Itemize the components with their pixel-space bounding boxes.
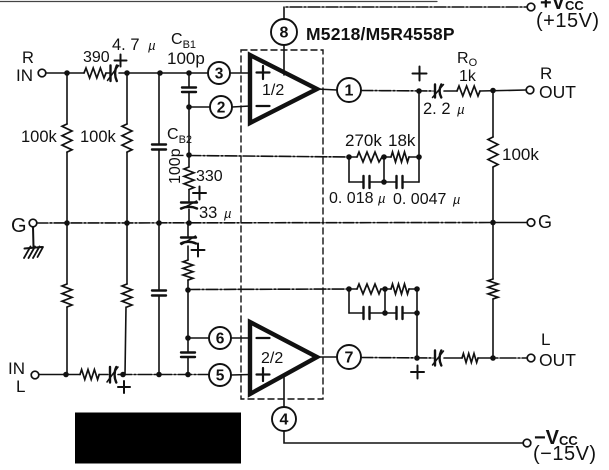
svg-text:0. 0047 µ: 0. 0047 µ xyxy=(393,191,460,208)
node fbR mid xyxy=(381,154,387,160)
svg-text:100p: 100p xyxy=(167,49,205,68)
label R IN xyxy=(16,49,34,85)
wire pin6 to op-amp xyxy=(231,337,250,339)
svg-text:18k: 18k xyxy=(388,131,416,150)
svg-text:100k: 100k xyxy=(80,128,117,146)
node G x159 xyxy=(156,220,162,226)
wire pin7 to output node xyxy=(361,357,433,360)
capacitor CB2 100p xyxy=(152,73,166,223)
terminal L OUT xyxy=(527,354,535,362)
resistor 100k output (R ch) xyxy=(488,91,498,223)
svg-text:M5218/M5R4558P: M5218/M5R4558P xyxy=(306,24,455,44)
svg-text:G: G xyxy=(538,212,552,232)
node G right junction xyxy=(490,220,496,226)
node L-out 100k junction xyxy=(490,355,496,361)
node R-IN / 100k junction xyxy=(64,70,70,76)
svg-text:OUT: OUT xyxy=(539,350,576,370)
resistor 100k input A xyxy=(62,73,72,223)
terminal R OUT xyxy=(526,86,534,94)
label CB2 xyxy=(167,126,192,146)
op-amp U2 2/2 xyxy=(250,322,317,394)
plus mark 2.2u (R ch) xyxy=(413,67,427,81)
wire G rail xyxy=(37,222,527,225)
svg-text:G: G xyxy=(11,215,27,237)
label 330 xyxy=(196,168,223,185)
node L-IN junction x66 xyxy=(63,372,69,378)
label 100p (CB1) xyxy=(167,49,205,68)
resistor 330 (L ch) xyxy=(183,246,193,290)
plus mark op-amp1 xyxy=(257,66,270,79)
resistor 330 (R ch) xyxy=(184,155,194,201)
svg-text:1k: 1k xyxy=(459,68,477,85)
pin 7 xyxy=(337,345,361,369)
node L junction x188 xyxy=(185,372,191,378)
label 2.2u xyxy=(423,100,465,118)
wire pin6 xyxy=(188,337,209,339)
capacitor 4.7u' (L ch electrolytic) xyxy=(107,367,118,383)
wire 390' to cap xyxy=(99,374,108,376)
label L OUT xyxy=(539,330,576,370)
node L junction x159 xyxy=(156,372,162,378)
node fbL cap right xyxy=(414,310,420,316)
pin 5 xyxy=(209,364,231,386)
label G left xyxy=(11,215,27,237)
label 1k xyxy=(459,68,477,85)
label 0.0047u xyxy=(393,191,460,208)
label G right xyxy=(538,212,552,232)
svg-text:OUT: OUT xyxy=(539,82,576,102)
wire pin5 to op-amp xyxy=(231,374,250,377)
wire C4.7 to pin3 xyxy=(119,72,208,74)
svg-text:33 µ: 33 µ xyxy=(199,204,231,222)
capacitor 4.7u (electrolytic) xyxy=(108,66,119,82)
wire pin2 to op-amp xyxy=(232,106,250,107)
wire fbL verticals xyxy=(349,289,417,358)
svg-text:2/2: 2/2 xyxy=(261,350,283,367)
wire pin8 to op-amp1 xyxy=(283,46,285,76)
plus mark op-amp2 xyxy=(257,368,270,381)
svg-text:100k: 100k xyxy=(21,128,58,146)
label 100k A xyxy=(21,128,58,146)
node pin2 junction xyxy=(186,104,192,110)
svg-text:330: 330 xyxy=(196,168,223,185)
capacitor CB1 100p xyxy=(182,73,196,155)
terminal G left xyxy=(29,219,37,227)
plus mark 33u (L ch) xyxy=(192,244,205,257)
terminal R IN xyxy=(38,69,46,77)
pin 1 xyxy=(337,78,361,102)
label -Vcc xyxy=(533,427,597,465)
label IN L xyxy=(8,359,25,396)
resistor 390' (L ch) xyxy=(80,370,99,380)
svg-text:0. 018 µ: 0. 018 µ xyxy=(329,190,385,207)
label 270k xyxy=(345,131,382,150)
redaction black box xyxy=(75,413,241,464)
wire pin4 to -Vcc xyxy=(284,431,523,443)
wire op-amp1 out to pin1 xyxy=(317,89,337,90)
IC dashed outline xyxy=(241,50,323,399)
label 100k B xyxy=(80,128,117,146)
svg-text:270k: 270k xyxy=(345,131,382,150)
plus mark 4.7u' xyxy=(118,381,130,393)
capacitor 0.018u (L ch) xyxy=(349,307,385,319)
plus mark 33u (R ch) xyxy=(193,187,206,200)
capacitor 0.018u (R ch) xyxy=(349,176,384,188)
wire 390 to C4.7 xyxy=(106,72,110,74)
wire R-IN to 390 xyxy=(46,72,84,74)
node L junction x123 xyxy=(120,372,126,378)
node pin6 junction xyxy=(185,335,191,341)
svg-text:3: 3 xyxy=(215,66,224,83)
wire pin1 to output node xyxy=(361,90,433,93)
label CB1 xyxy=(171,31,196,51)
resistor 100k input A' (L ch) xyxy=(62,223,72,375)
wire feedback L net left xyxy=(188,288,349,291)
node fbL cap mid xyxy=(382,310,388,316)
wire L-IN rail xyxy=(39,374,80,376)
resistor 18k (L ch) xyxy=(391,284,417,294)
svg-text:1/2: 1/2 xyxy=(262,82,284,99)
svg-text:L: L xyxy=(16,377,25,396)
label 1/2 xyxy=(262,82,284,99)
label 18k xyxy=(388,131,416,150)
svg-text:L: L xyxy=(541,330,550,349)
label 0.018u xyxy=(329,190,385,207)
op-amp U1 1/2 xyxy=(250,55,317,123)
node fbL mid xyxy=(382,286,388,292)
node junction x127 xyxy=(124,70,130,76)
node feedback tap A xyxy=(186,152,192,158)
wire Ro' to L OUT xyxy=(478,357,527,359)
capacitor CB2' 100p (L ch) xyxy=(152,223,166,375)
capacitor CB1' 100p (L ch) xyxy=(181,338,195,375)
node junction x189 xyxy=(186,70,192,76)
plus mark 2.2u (L ch) xyxy=(411,366,424,379)
wire fbR verticals xyxy=(349,91,419,182)
svg-text:390: 390 xyxy=(83,49,110,66)
svg-text:5: 5 xyxy=(216,368,225,385)
svg-text:1: 1 xyxy=(345,83,354,100)
resistor 18k (R ch) xyxy=(391,152,419,162)
svg-text:IN: IN xyxy=(16,66,33,85)
capacitor 0.0047u (R ch) xyxy=(384,176,419,188)
node L output junction xyxy=(414,355,420,361)
svg-text:8: 8 xyxy=(280,25,289,42)
resistor Ro 1k (R ch) xyxy=(457,86,480,96)
resistor 100k input B xyxy=(122,73,132,223)
capacitor 33u (R ch electrolytic) xyxy=(181,201,197,223)
page top rule xyxy=(0,1,437,3)
minus mark op-amp1 xyxy=(257,105,270,107)
svg-text:7: 7 xyxy=(345,350,354,367)
label 33u xyxy=(199,204,231,222)
svg-text:2. 2 µ: 2. 2 µ xyxy=(423,100,465,118)
svg-text:IN: IN xyxy=(8,359,25,378)
pin 8 xyxy=(271,19,297,45)
resistor 270k (R ch) xyxy=(349,152,391,162)
svg-text:100k: 100k xyxy=(502,145,539,164)
label 2/2 xyxy=(261,350,283,367)
wire op-amp2 out to pin7 xyxy=(317,356,337,358)
node junction x160 xyxy=(157,70,163,76)
node fbR left xyxy=(346,154,352,160)
resistor 390 xyxy=(84,68,106,78)
svg-text:2: 2 xyxy=(217,100,226,117)
wire cap to pin5 xyxy=(118,374,209,376)
label 390 xyxy=(83,49,110,66)
node fbR cap mid xyxy=(381,179,387,185)
wire pin3 to op-amp xyxy=(230,72,250,74)
ground symbol xyxy=(24,227,43,258)
node fbL right xyxy=(414,286,420,292)
svg-text:R: R xyxy=(540,64,552,83)
label R OUT xyxy=(539,64,576,102)
label 100p (CB2, rotated) xyxy=(167,148,184,184)
wire 2.2u to Ro xyxy=(444,90,457,92)
node R output junction xyxy=(416,88,422,94)
node G x67 xyxy=(64,220,70,226)
svg-text:(−15V): (−15V) xyxy=(533,443,597,465)
node G x189 xyxy=(186,220,192,226)
resistor 100k input B' (L ch) xyxy=(122,223,132,375)
svg-text:6: 6 xyxy=(216,331,225,348)
resistor 270k (L ch) xyxy=(349,284,391,294)
resistor Ro' 1k (L ch) xyxy=(462,354,478,363)
capacitor 2.2u (L ch electrolytic) xyxy=(433,351,444,366)
terminal L IN xyxy=(31,371,39,379)
wire op-amp2 to pin4 xyxy=(283,376,285,407)
svg-text:(+15V): (+15V) xyxy=(536,10,600,32)
plus mark 4.7u xyxy=(115,55,127,67)
capacitor 2.2u (R ch electrolytic) xyxy=(433,85,444,98)
wire Ro to R OUT xyxy=(480,90,526,91)
pin 6 xyxy=(209,327,231,349)
terminal +Vcc xyxy=(527,3,535,11)
pin 2 xyxy=(210,96,232,118)
label +Vcc xyxy=(536,0,600,32)
label 4.7u xyxy=(112,36,156,54)
node G x127 xyxy=(124,220,130,226)
terminal -Vcc xyxy=(523,439,531,447)
svg-text:4: 4 xyxy=(280,412,289,429)
node fbR right xyxy=(416,154,422,160)
node R-out 100k junction xyxy=(490,88,496,94)
capacitor 33u (L ch electrolytic) xyxy=(181,223,196,245)
svg-text:4. 7 µ: 4. 7 µ xyxy=(112,36,156,54)
wire 2.2u' to Ro' xyxy=(444,357,462,359)
pin 4 xyxy=(272,407,296,431)
wire feedback R net left xyxy=(189,156,349,158)
wire tapB to pin6 xyxy=(187,290,189,338)
minus mark op-amp2 xyxy=(257,337,270,339)
svg-text:R: R xyxy=(22,49,34,67)
label Ro xyxy=(457,50,478,69)
node feedback tap B xyxy=(185,287,191,293)
wire pin2 xyxy=(189,106,210,108)
label 100k output xyxy=(502,145,539,164)
resistor 100k output (L ch) xyxy=(488,223,498,359)
capacitor 0.0047u (L ch) xyxy=(385,307,417,319)
terminal G right xyxy=(527,219,535,227)
label M5218/M5R4558P xyxy=(306,24,455,44)
svg-text:100p: 100p xyxy=(167,148,184,184)
wire pin8 to +Vcc xyxy=(284,7,527,19)
pin 3 xyxy=(208,62,230,84)
node fbL left xyxy=(346,286,352,292)
